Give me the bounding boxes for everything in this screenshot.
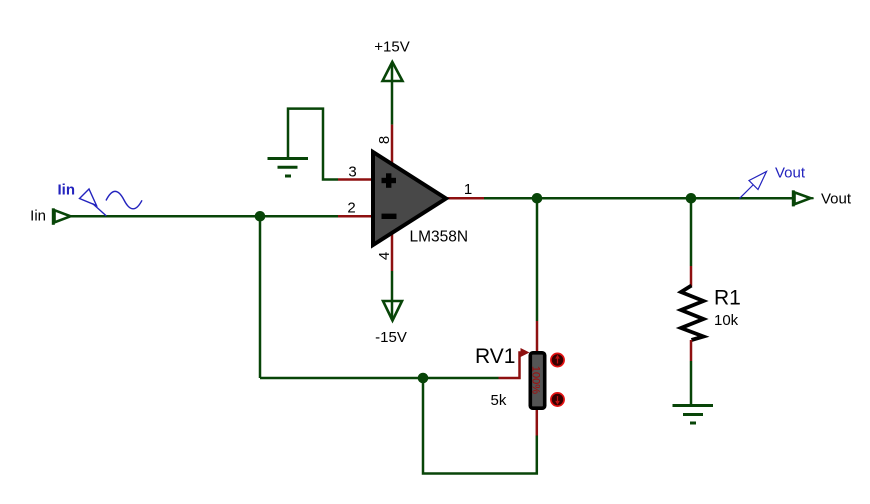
op-amp plus mark	[382, 173, 397, 188]
svg-text:Vout: Vout	[821, 191, 852, 208]
wire pin2 stub maroon	[338, 215, 375, 218]
svg-text:R1: R1	[714, 287, 741, 310]
wire R1 to ground green	[690, 361, 693, 405]
power -15V arrow symbol	[383, 301, 402, 321]
op-amp U1 LM358N body	[373, 152, 446, 245]
node junction feedback	[418, 373, 429, 384]
terminal Vout output	[793, 190, 813, 206]
wire pin3 stub maroon	[338, 178, 375, 181]
svg-text:RV1: RV1	[475, 345, 515, 368]
wire RV1 top stub maroon	[536, 321, 539, 352]
wire R1 top stub maroon	[690, 266, 693, 286]
svg-text:5k: 5k	[491, 392, 507, 409]
wire bottom U loop	[423, 378, 537, 474]
power +15V arrow symbol	[383, 62, 403, 81]
button RV1 down	[551, 393, 564, 406]
ground under R1	[673, 406, 714, 424]
wire pin3 net from ground	[288, 109, 338, 180]
power +15V wire green	[391, 63, 394, 125]
svg-text:100%: 100%	[530, 366, 542, 394]
voltage probe Vout blue	[740, 172, 767, 199]
wire output branch down to RV1 top	[536, 198, 539, 321]
wire RV1 bottom stub maroon	[536, 409, 539, 436]
svg-text:4: 4	[376, 252, 393, 260]
svg-text:3: 3	[348, 164, 356, 181]
ground left	[268, 159, 309, 177]
wire R1 branch top green	[690, 198, 693, 266]
generator probe Iin blue	[80, 189, 143, 216]
wire feedback horizontal to wiper	[260, 377, 499, 380]
wire pin8 stub maroon	[391, 125, 394, 166]
svg-text:Iin: Iin	[58, 182, 76, 199]
node junction output RV1	[532, 193, 543, 204]
svg-text:8: 8	[376, 136, 393, 144]
wire RV1 wiper maroon with arrow	[499, 353, 524, 379]
potentiometer RV1 body	[530, 353, 544, 408]
wire input net vertical down	[259, 216, 262, 378]
svg-text:2: 2	[347, 200, 355, 217]
wire pin4 stub maroon	[391, 232, 394, 271]
svg-text:1: 1	[464, 181, 472, 198]
svg-text:+15V: +15V	[374, 39, 409, 56]
wire R1 bottom stub maroon	[690, 340, 693, 361]
svg-text:Iin: Iin	[30, 208, 46, 225]
terminal Iin input	[53, 208, 70, 225]
op-amp minus mark	[382, 214, 397, 219]
power -15V wire green	[391, 271, 394, 320]
node junction output R1	[686, 193, 697, 204]
svg-text:-15V: -15V	[375, 329, 407, 346]
wire pin1 output stub maroon	[446, 197, 484, 200]
button RV1 up	[551, 353, 564, 366]
svg-text:10k: 10k	[714, 312, 739, 329]
node junction input	[255, 211, 266, 222]
wire output net horizontal	[484, 197, 793, 200]
svg-text:Vout: Vout	[775, 164, 806, 181]
wire input net horizontal	[71, 215, 338, 218]
resistor R1 zigzag	[681, 286, 704, 341]
svg-text:LM358N: LM358N	[410, 229, 469, 246]
